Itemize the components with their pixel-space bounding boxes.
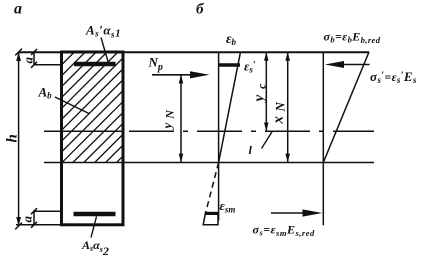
neutral axis line (44, 162, 374, 164)
force Np arrow (152, 74, 192, 76)
svg-text:yN: yN (160, 106, 177, 130)
leader for l (262, 132, 273, 149)
strain diagram dashed continuation (tension) (206, 163, 219, 214)
yN dimension line (180, 75, 182, 163)
rebar As' (top reinforcement bar) (74, 62, 116, 66)
strain diagram axis (218, 52, 220, 221)
centroid axis dash-dot line (44, 130, 374, 132)
svg-text:а: а (14, 1, 22, 18)
stress diagram axis (322, 52, 324, 225)
svg-text:xN: xN (271, 98, 288, 125)
sigma_s arrow (bottom steel stress, pointing right) (271, 212, 304, 214)
eps_sm bar (thick top edge) (205, 212, 218, 215)
yc dimension line (265, 52, 267, 131)
top edge line (18, 51, 369, 53)
svg-text:б: б (196, 2, 204, 18)
a dimension (top cover) (31, 49, 37, 68)
concrete section outline (62, 52, 124, 225)
strain eps_s' bar (219, 63, 240, 66)
svg-text:a: a (20, 216, 35, 223)
h dimension arrowheads (16, 52, 21, 61)
strain diagram slanted line (compression) (219, 52, 241, 163)
svg-text:σs′=εs′Es: σs′=εs′Es (370, 69, 417, 85)
bottom steel level extension line (33, 210, 62, 212)
leader to top rebar (101, 38, 108, 62)
rebar As (bottom reinforcement bar) (74, 212, 116, 216)
sigma_s' arrow (top steel stress, pointing left) (343, 64, 370, 66)
top steel level extension line (33, 64, 62, 66)
leader to bottom rebar (91, 217, 97, 238)
svg-text:a: a (21, 57, 36, 64)
xN dimension line (287, 52, 289, 163)
h dimension line (15, 49, 22, 230)
bottom edge extension line (16, 224, 62, 226)
svg-text:h: h (5, 134, 21, 142)
svg-text:yc: yc (252, 78, 269, 104)
a dimension (bottom cover) (31, 208, 37, 228)
concrete section hatching Ab (0, 53, 226, 163)
stress diagram slanted line (323, 52, 369, 163)
leader into hatched zone (55, 97, 89, 114)
eps_sm trapezoid (203, 213, 218, 225)
